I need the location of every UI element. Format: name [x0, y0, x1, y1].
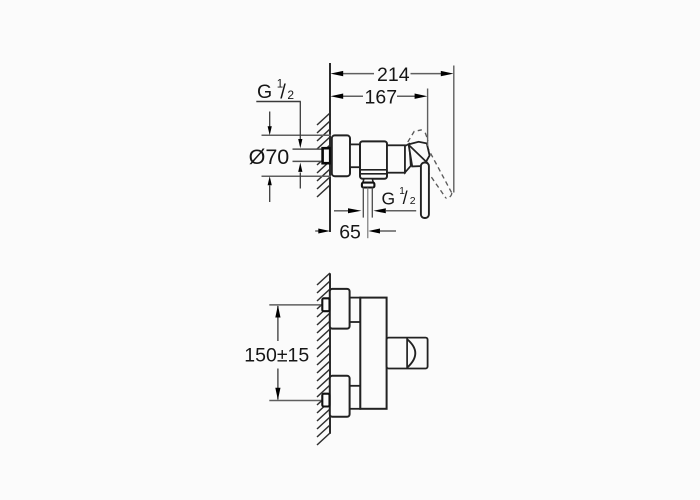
- svg-text:/: /: [280, 81, 286, 103]
- svg-text:2: 2: [410, 195, 416, 207]
- svg-text:150±15: 150±15: [244, 345, 309, 367]
- svg-text:214: 214: [377, 64, 410, 86]
- svg-text:2: 2: [287, 88, 294, 102]
- svg-text:G: G: [257, 81, 272, 103]
- svg-text:167: 167: [365, 87, 398, 109]
- svg-text:/: /: [403, 188, 408, 208]
- svg-text:Ø70: Ø70: [249, 145, 290, 169]
- svg-text:G: G: [382, 189, 396, 209]
- svg-text:65: 65: [339, 222, 361, 244]
